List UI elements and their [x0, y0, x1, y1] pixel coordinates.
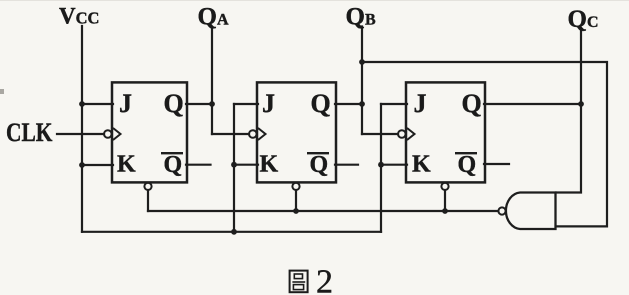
node QA wire vertical: [211, 28, 213, 135]
svg-text:J: J: [414, 89, 427, 118]
svg-text:Q: Q: [164, 152, 183, 178]
scan artifact tick left edge: [0, 89, 4, 94]
node Vcc rail wire: [81, 26, 83, 232]
junction dot QC node: [578, 101, 584, 107]
wire QA to FF2 clock: [212, 133, 249, 135]
U1 clear bubble: [144, 183, 151, 190]
wire FF3 clear drop: [444, 190, 446, 211]
wire K1 input: [82, 164, 113, 166]
svg-text:Q: Q: [311, 89, 331, 118]
wire Q3-bar stub: [484, 163, 509, 165]
svg-text:2: 2: [316, 263, 333, 295]
junction dot QB node: [359, 101, 365, 107]
wire QB to FF3 clock: [362, 133, 398, 135]
wire FF2 clear drop: [295, 190, 297, 211]
U3 clear bubble: [441, 183, 448, 190]
node QC wire vertical to NAND input: [556, 30, 581, 193]
svg-text:Q: Q: [164, 89, 184, 118]
wire J3/K3 tie to rail: [380, 104, 382, 232]
wire FF1 clear drop: [147, 190, 149, 211]
U2 clock triangle: [258, 128, 266, 140]
svg-text:K: K: [117, 152, 136, 178]
flip-flop U1 box: [112, 82, 187, 182]
U2 clear bubble: [292, 183, 299, 190]
wire Q2 output: [335, 103, 362, 105]
wire Q1-bar stub: [186, 164, 211, 166]
wire J2 input: [234, 103, 258, 105]
svg-text:CLK: CLK: [6, 118, 53, 147]
U2 clock bubble: [249, 130, 257, 138]
wire J3 input: [381, 103, 407, 105]
svg-text:K: K: [412, 152, 431, 178]
faint scan line top: [0, 0, 629, 1]
junction dot QB to NAND branch: [359, 59, 365, 65]
wire Q3 output: [484, 103, 581, 105]
wire J2/K2 tie to rail: [233, 104, 235, 232]
U1 clock bubble: [104, 130, 112, 138]
svg-text:Q: Q: [310, 152, 329, 178]
svg-text:J: J: [119, 89, 132, 118]
wire Q2-bar stub: [335, 164, 358, 166]
junction dot K2 tap: [231, 162, 237, 168]
junction dot K1 tap: [79, 162, 85, 168]
node QB wire vertical: [361, 27, 363, 135]
wire bottom Vcc rail: [82, 231, 381, 233]
svg-text:Q: Q: [462, 89, 482, 118]
junction dot clear line FF2: [293, 208, 299, 214]
wire K3 input: [381, 164, 407, 166]
nand gate U4 body (left-facing): [506, 193, 556, 230]
junction dot clear line FF3: [442, 208, 448, 214]
U1 clock triangle: [113, 128, 121, 140]
wire CLK input: [57, 133, 104, 135]
caption figure character (CJK tu) drawn as strokes: [290, 271, 308, 293]
flip-flop U3 box: [406, 82, 485, 182]
svg-text:K: K: [260, 152, 279, 178]
junction dot rail tap FF2: [231, 229, 237, 235]
wire K2 input: [234, 164, 258, 166]
wire QB to NAND input: [362, 62, 607, 226]
wire NAND output to clear line: [148, 210, 498, 212]
wire Q1 output: [186, 103, 212, 105]
flip-flop U2 box: [257, 82, 336, 182]
svg-text:Q: Q: [458, 152, 477, 178]
junction dot QA node: [209, 101, 215, 107]
U3 clock bubble: [398, 130, 406, 138]
U3 clock triangle: [407, 128, 415, 140]
svg-text:J: J: [262, 89, 275, 118]
junction dot K3 tap: [378, 162, 384, 168]
wire J1 input: [82, 103, 113, 105]
nand gate U4 output bubble: [498, 207, 505, 214]
junction dot J1 tap: [79, 101, 85, 107]
